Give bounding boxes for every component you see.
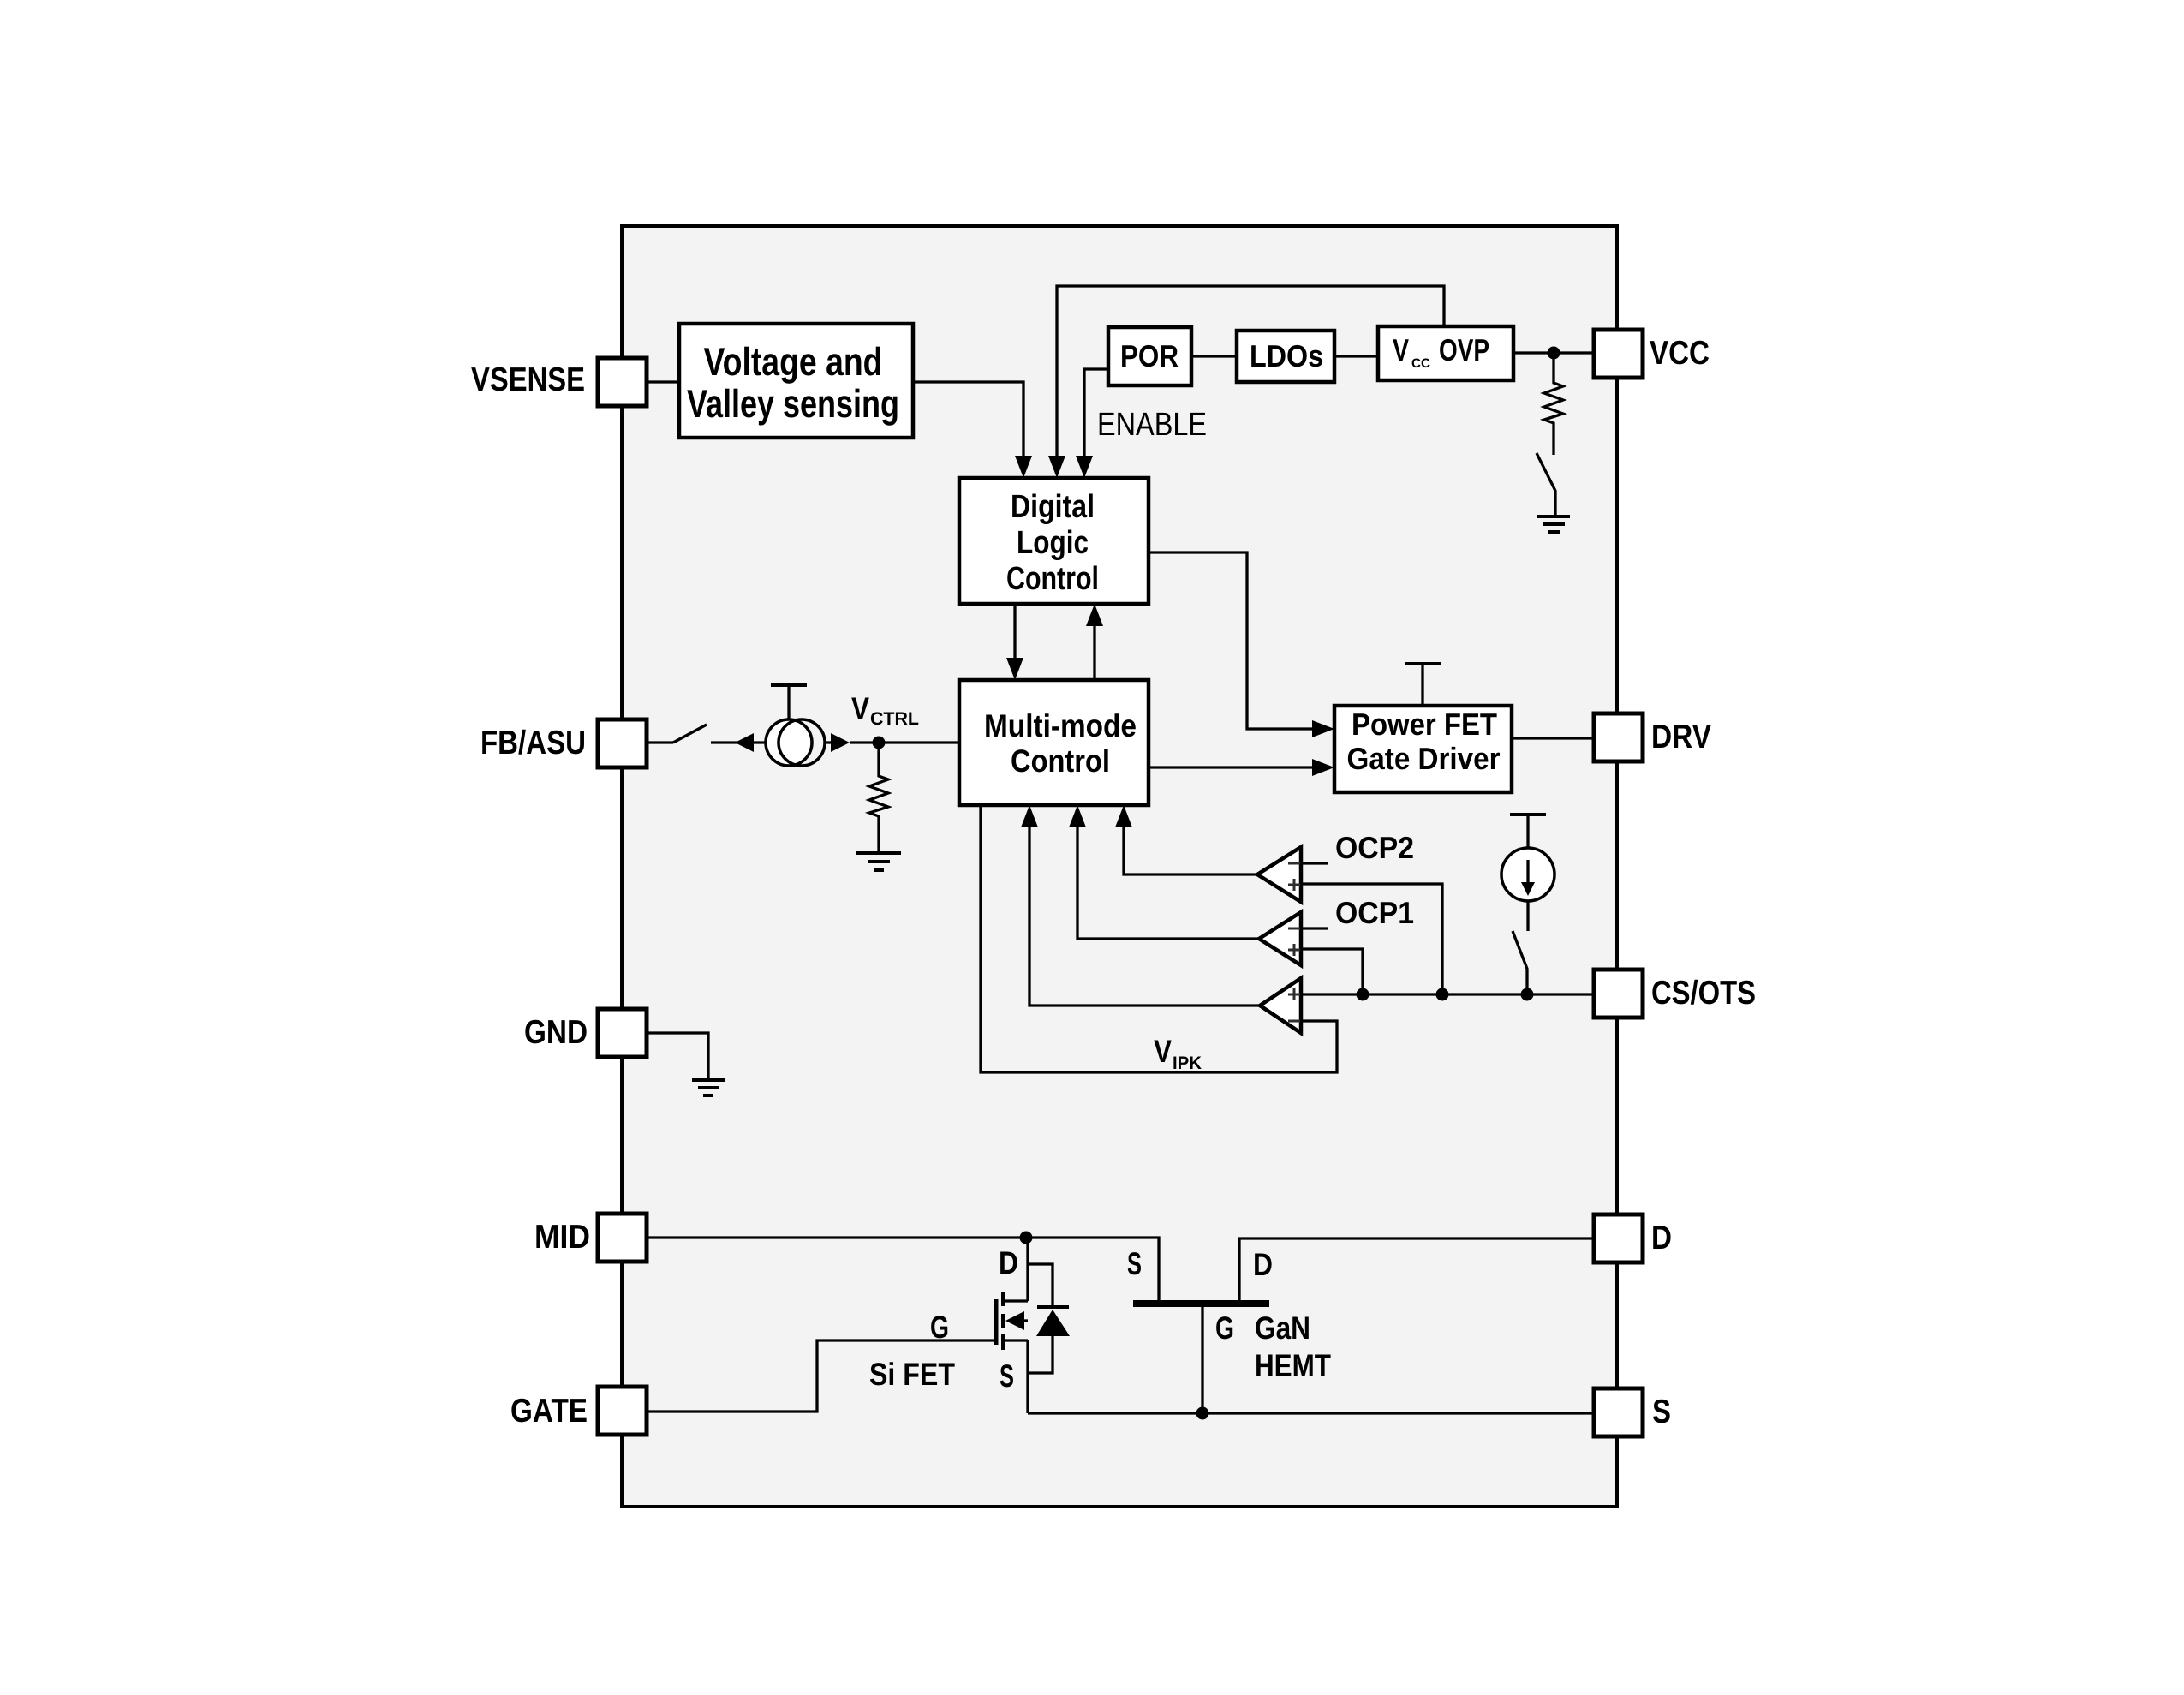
comparator OCP2 — [1257, 847, 1301, 902]
svg-text:GND: GND — [524, 1014, 588, 1051]
svg-text:CS/OTS: CS/OTS — [1651, 975, 1756, 1012]
svg-text:LDOs: LDOs — [1250, 338, 1323, 373]
svg-text:V: V — [1154, 1034, 1172, 1069]
wire VCC rail to Digital Logic Control (top long wire) — [1048, 286, 1444, 478]
wire MID to GaN source — [647, 1238, 1159, 1300]
wire GATE pin to Q1 gate — [647, 1340, 996, 1412]
svg-text:POR: POR — [1120, 338, 1179, 373]
transistor Q1 Si FET — [996, 1238, 1028, 1413]
svg-text:VCC: VCC — [1650, 335, 1710, 372]
block Power FET Gate Driver — [1334, 706, 1512, 792]
wire OCP2 output to Multi-mode Control — [1115, 805, 1257, 874]
svg-text:OCP1: OCP1 — [1335, 895, 1414, 930]
svg-text:Si FET: Si FET — [869, 1357, 955, 1392]
svg-text:Valley sensing: Valley sensing — [687, 381, 899, 426]
svg-text:Digital: Digital — [1011, 489, 1095, 525]
wire current source I2 to switch — [1526, 901, 1529, 931]
resistor R1 at VCC — [1544, 353, 1563, 455]
svg-text:Multi-mode: Multi-mode — [984, 708, 1137, 743]
switch S3 at CS/OTS — [1513, 931, 1527, 994]
wire Digital Logic Control to Power FET Gate Driver — [1149, 552, 1334, 737]
svg-text:OVP: OVP — [1439, 332, 1489, 367]
label OCP1 — [1335, 895, 1414, 930]
label Q2 drain D — [1253, 1247, 1273, 1282]
internal rail T above current source I1 — [771, 685, 807, 720]
svg-text:Voltage and: Voltage and — [704, 339, 883, 384]
label Q1 drain D — [999, 1245, 1018, 1280]
svg-text:Logic: Logic — [1017, 525, 1089, 561]
svg-text:HEMT: HEMT — [1255, 1348, 1331, 1383]
node junction GaN gate — [1196, 1407, 1209, 1420]
diode D1 body diode of Q1 — [1028, 1264, 1070, 1373]
switch S1 below resistor R1 — [1537, 453, 1555, 516]
svg-text:Control: Control — [1006, 561, 1099, 597]
svg-text:Gate Driver: Gate Driver — [1347, 741, 1501, 776]
block VCC OVP — [1378, 326, 1513, 380]
svg-text:OCP2: OCP2 — [1335, 830, 1414, 865]
wire FB/ASU to switch — [647, 741, 673, 743]
arrowhead current out (left) — [735, 733, 754, 752]
wire OCP2 minus input stub — [1301, 862, 1328, 864]
pin GATE — [510, 1387, 647, 1435]
pin FB/ASU — [480, 719, 647, 767]
svg-text:V: V — [851, 691, 869, 726]
svg-text:CC: CC — [1411, 356, 1430, 371]
svg-text:G: G — [1215, 1310, 1234, 1346]
svg-text:IPK: IPK — [1173, 1053, 1202, 1073]
pin MID — [534, 1214, 647, 1262]
block POR — [1108, 327, 1191, 385]
svg-text:CTRL: CTRL — [870, 709, 919, 729]
wire GND pin to ground — [647, 1033, 708, 1080]
block Voltage and Valley sensing — [679, 324, 913, 438]
svg-text:Power FET: Power FET — [1352, 707, 1497, 742]
svg-text:GaN: GaN — [1255, 1310, 1310, 1346]
label Q2 gate G — [1215, 1310, 1234, 1346]
svg-text:S: S — [1127, 1246, 1142, 1281]
current source I2 (OTS bias) — [1501, 848, 1554, 901]
internal rail T above Power FET Gate Driver — [1405, 664, 1441, 706]
label HEMT — [1255, 1348, 1331, 1383]
svg-text:MID: MID — [534, 1219, 590, 1256]
label GaN — [1255, 1310, 1310, 1346]
wire OCP1 minus input stub — [1301, 927, 1328, 929]
node junction OCP1 tap — [1357, 988, 1369, 1001]
wire source net to S pin — [1028, 1412, 1594, 1414]
svg-text:V: V — [1393, 332, 1409, 367]
IC boundary — [622, 226, 1617, 1507]
wire switch to current source — [711, 741, 766, 743]
wire LDOs to VCC OVP — [1334, 355, 1378, 357]
wire CS sense line — [1301, 993, 1594, 995]
wire Multi-mode Control to Power FET Gate Driver — [1149, 759, 1334, 776]
wire VCC OVP to VCC pin — [1513, 351, 1594, 354]
label Q2 source S — [1127, 1246, 1142, 1281]
block Digital Logic Control — [959, 478, 1149, 604]
switch S2 at FB/ASU — [673, 725, 707, 743]
comparator OCP1 — [1259, 912, 1301, 965]
node junction OTS tap — [1521, 988, 1534, 1001]
wire current source to VCTRL node — [825, 741, 959, 743]
transistor Q2 GaN HEMT — [1133, 1238, 1594, 1413]
svg-text:GATE: GATE — [510, 1393, 588, 1429]
wire OCP1 output to Multi-mode Control — [1069, 805, 1259, 939]
ground (VCC bleed path) — [1537, 516, 1570, 532]
svg-text:D: D — [999, 1245, 1018, 1280]
net label ENABLE — [1097, 407, 1207, 443]
ground (GND pin) — [692, 1080, 725, 1095]
svg-text:DRV: DRV — [1651, 719, 1711, 755]
label OCP2 — [1335, 830, 1414, 865]
svg-text:D: D — [1253, 1247, 1273, 1282]
node junction Si FET drain — [1020, 1232, 1033, 1244]
wire Voltage sensing to Digital Logic Control — [913, 382, 1032, 478]
wire OCP1 plus input to CS node — [1301, 949, 1363, 994]
svg-text:S: S — [1652, 1394, 1671, 1430]
svg-text:S: S — [1000, 1358, 1014, 1394]
node junction at VCC — [1548, 347, 1560, 360]
wire Multi-mode Control to Digital Logic Control (up) — [1086, 604, 1103, 680]
svg-text:FB/ASU: FB/ASU — [480, 725, 586, 761]
pin CS/OTS — [1594, 970, 1756, 1018]
ground (VCTRL resistor) — [856, 853, 901, 870]
svg-text:D: D — [1651, 1220, 1672, 1256]
net label VCTRL — [851, 691, 919, 729]
net label VIPK — [1154, 1034, 1202, 1073]
pin VSENSE — [471, 358, 647, 406]
pin GND — [524, 1009, 647, 1057]
wire Multi-mode Control to VIPK reference — [981, 805, 1337, 1072]
wire OCP2 plus input to CS node — [1301, 884, 1442, 994]
resistor R2 at VCTRL — [869, 743, 888, 853]
wire Power FET Gate Driver to DRV pin — [1512, 737, 1594, 739]
pin D — [1594, 1215, 1672, 1262]
label Q1 source S — [1000, 1358, 1014, 1394]
node VCTRL — [873, 737, 886, 749]
comparator VIPK — [1260, 978, 1301, 1033]
block Multi-mode Control — [959, 680, 1149, 805]
label Q1 gate G — [930, 1310, 949, 1345]
wire VIPK comparator output to Multi-mode Control — [1021, 805, 1260, 1006]
internal rail T above current source I2 — [1510, 815, 1546, 848]
svg-text:Control: Control — [1011, 743, 1110, 779]
arrowhead current in (right) — [831, 733, 850, 752]
wire Digital Logic Control to Multi-mode Control (down) — [1006, 604, 1023, 680]
block LDOs — [1237, 331, 1334, 382]
label Si FET — [869, 1357, 955, 1392]
node junction OCP2 tap — [1436, 988, 1449, 1001]
pin DRV — [1594, 713, 1711, 761]
wire VSENSE to Voltage/Valley sensing — [647, 380, 679, 383]
wire POR to LDOs — [1191, 355, 1237, 357]
pin VCC — [1594, 330, 1710, 378]
pin S — [1594, 1388, 1671, 1436]
current source I1 (mirror) at FB/ASU — [766, 719, 825, 766]
svg-text:ENABLE: ENABLE — [1097, 407, 1207, 443]
wire ENABLE from POR to Digital Logic Control — [1076, 369, 1108, 478]
svg-text:VSENSE: VSENSE — [471, 361, 585, 398]
